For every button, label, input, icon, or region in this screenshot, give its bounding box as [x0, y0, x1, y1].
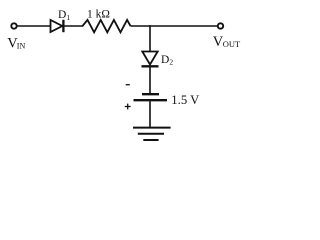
svg-text:D2: D2 [161, 54, 173, 67]
battery B1 negative plate (short, top) [142, 93, 159, 95]
wire: diode D1 to resistor [65, 25, 84, 27]
wire: node down to diode D2 [149, 25, 151, 52]
diode D1 [51, 20, 64, 32]
wire: input terminal to diode D1 [17, 25, 50, 27]
svg-text:VOUT: VOUT [213, 34, 241, 50]
wire: battery to ground [149, 101, 151, 127]
ground [133, 128, 171, 140]
svg-text:D1: D1 [58, 9, 70, 22]
battery polarity plus sign [125, 104, 131, 110]
resistor R1 1 kOhm [83, 20, 131, 32]
svg-text:1.5 V: 1.5 V [171, 93, 200, 107]
wire: diode D2 to battery [149, 67, 151, 93]
diode D2 [142, 52, 159, 67]
wire: resistor to output terminal (through node) [131, 25, 218, 27]
battery B1 positive plate (long, bottom) [134, 99, 168, 101]
svg-text:1 kΩ: 1 kΩ [87, 9, 110, 21]
output terminal circle [218, 23, 223, 28]
input terminal circle [11, 23, 16, 28]
battery polarity minus sign [126, 84, 130, 86]
svg-text:VIN: VIN [7, 36, 25, 52]
